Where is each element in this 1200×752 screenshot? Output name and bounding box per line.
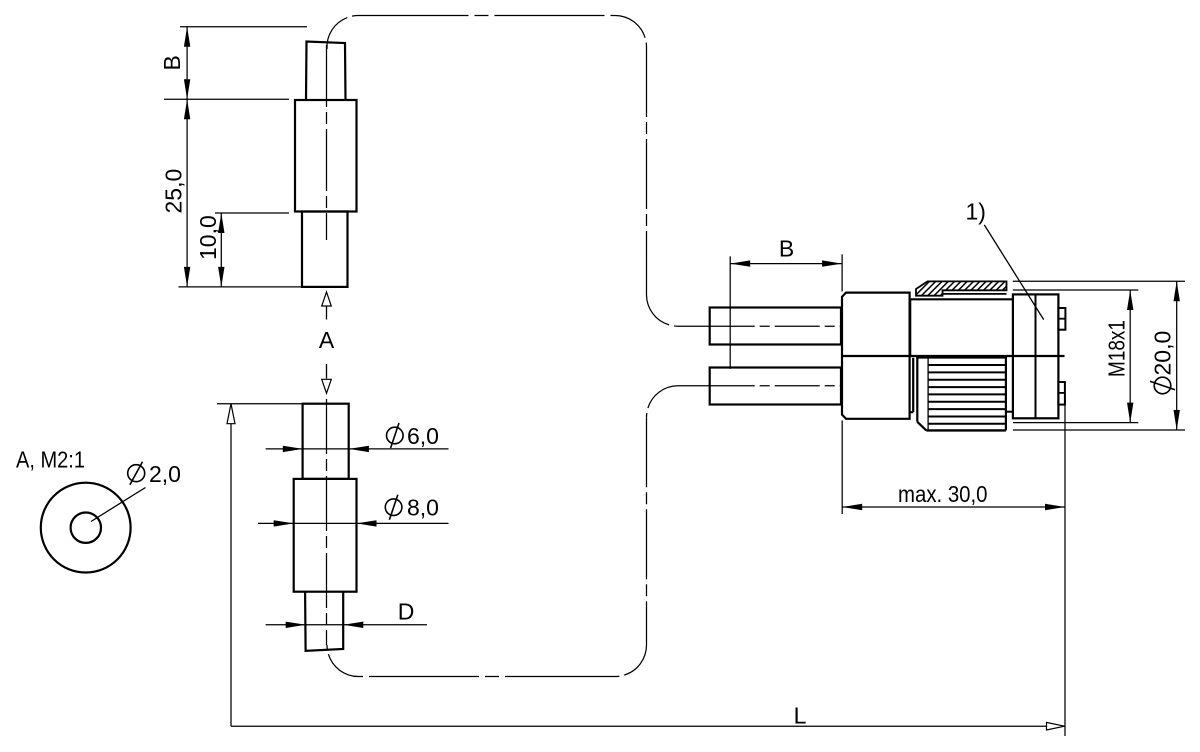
dimension line 10,0 vertical (220, 213, 222, 287)
connector body left edge (909, 299, 911, 356)
dimension line L vertical part (230, 404, 232, 727)
svg-text:8,0: 8,0 (407, 495, 439, 521)
arrow D right (343, 622, 363, 628)
terminal screw top divider (1058, 318, 1065, 320)
extension line at probe bottom (25,0 / 10,0 bottom) (179, 286, 305, 288)
arrow D left (286, 622, 306, 628)
detail inner circle dia 2,0 (71, 513, 101, 543)
arrow max30 left (842, 504, 862, 510)
cable top horizontal run (359, 15, 616, 17)
cable from upper probe: arc to top run (327, 15, 359, 49)
view arrow A (upper, open arrowhead) (322, 292, 332, 306)
svg-text:2,0: 2,0 (149, 461, 181, 487)
connector body top edge (910, 298, 1012, 300)
extension line B right (connector face) (841, 254, 843, 291)
knurl facet boundary (927, 358, 929, 431)
rear housing divider (1035, 294, 1037, 418)
cable arc into connector top entry (647, 295, 679, 326)
svg-text:L: L (794, 703, 807, 729)
extension line at probe body top (B bottom / 25,0 top) (164, 98, 289, 100)
arrow 10,0 top (218, 213, 224, 233)
svg-text:6,0: 6,0 (407, 423, 439, 449)
svg-text:A: A (319, 327, 335, 353)
lower probe tip shaft (305, 592, 343, 651)
view arrow A (lower, open arrowhead pointing down) (322, 379, 332, 393)
svg-text:20,0: 20,0 (1149, 331, 1175, 376)
svg-text:10,0: 10,0 (195, 215, 221, 260)
bottom ferrule (710, 368, 841, 405)
upper probe body (295, 100, 357, 212)
svg-text:1): 1) (966, 199, 986, 225)
terminal screw bottom divider (1058, 392, 1065, 394)
dimension line diameter 8,0 (258, 522, 449, 524)
arrow L top (open) (227, 404, 235, 424)
arrow dia8 right (357, 520, 377, 526)
cable bottom-right corner arc (615, 645, 647, 677)
svg-text:D: D (398, 599, 415, 625)
extension line max30 left (841, 421, 843, 515)
upper probe lower shaft (302, 212, 348, 287)
arrow 25,0 bottom (184, 267, 190, 287)
dimension line L horizontal part (231, 725, 1065, 727)
extension line M18 bottom (1013, 422, 1138, 424)
diameter symbol 6,0 (387, 427, 404, 444)
arrow B-conn left (730, 260, 750, 266)
extension line B left (crosses top ferrule) (729, 256, 731, 369)
terminal screw bottom (1058, 382, 1065, 405)
view arrow A tail (upper) (326, 306, 328, 320)
svg-text:B: B (159, 55, 185, 70)
diameter symbol 20,0 (rotated) (1150, 377, 1175, 394)
extension line dia20 bottom (1013, 429, 1185, 431)
detail outer circle (41, 483, 131, 573)
extension line at probe step (10,0 top) (215, 212, 289, 214)
svg-text:25,0: 25,0 (161, 169, 187, 214)
arrow B bottom (184, 79, 190, 99)
cable arc out of connector bottom entry (647, 386, 679, 418)
dimension line diameter 6,0 (266, 448, 449, 450)
svg-text:M18x1: M18x1 (1103, 320, 1129, 377)
top ferrule (710, 308, 841, 345)
lower probe upper shaft (303, 404, 349, 479)
arrow B-conn right (822, 260, 842, 266)
knurled ring left edge (916, 356, 918, 422)
cap inner edge lower (912, 358, 914, 412)
svg-text:max. 30,0: max. 30,0 (898, 481, 988, 507)
dimension line dia 20,0 (1176, 281, 1178, 430)
extension line top of lower probe (L top) (217, 403, 304, 405)
extension line max30 right / L right (1064, 394, 1066, 736)
bottom ferrule centerline (710, 385, 841, 387)
cap step lower (910, 411, 914, 413)
knurled ring top line (917, 357, 1006, 359)
arrow M18 top (1127, 290, 1133, 310)
top ferrule centerline (710, 325, 841, 327)
arrow dia20 bottom (1174, 410, 1180, 430)
lower probe body (294, 479, 357, 592)
svg-text:B: B (779, 236, 794, 262)
arrow max30 right (1045, 504, 1065, 510)
rear housing (1013, 294, 1059, 418)
dimension line max. 30,0 (842, 506, 1065, 508)
dimension line B + 25,0 vertical (186, 27, 188, 287)
cable right vertical run (lower) (646, 417, 648, 645)
knurled ring right edge (1005, 356, 1007, 430)
gland nut section outline (916, 281, 1007, 295)
view arrow A tail (lower) (326, 364, 328, 379)
arrow dia6 left (283, 446, 303, 452)
extension line dia20 top (1013, 280, 1185, 282)
arrow 10,0 bottom (218, 267, 224, 287)
arrow L right (open) (1047, 722, 1065, 730)
cable top-right corner arc (615, 16, 647, 48)
knurled ring chamfer (917, 422, 926, 431)
dimension line B (connector) (730, 263, 842, 265)
leader line 1) (984, 225, 1043, 320)
diameter symbol 8,0 (385, 499, 402, 516)
connector mid split line (842, 355, 1065, 357)
svg-text:A, M2:1: A, M2:1 (16, 447, 85, 473)
knurled ring bottom edge (926, 429, 1006, 431)
dimension line M18x1 (1129, 290, 1131, 423)
cable lead to top ferrule (678, 325, 710, 327)
body step notch lower (1006, 411, 1013, 413)
diameter symbol 2,0 (128, 465, 145, 482)
thread crest line under nut (943, 293, 1007, 295)
gland nut section hatch (908, 281, 1025, 297)
extension line M18 top (1013, 289, 1139, 291)
terminal screw top (1058, 308, 1065, 330)
upper probe centerline (326, 45, 328, 240)
arrow M18 bottom (1127, 403, 1133, 423)
cable lead from bottom ferrule (678, 385, 710, 387)
extension line top of upper probe (B top) (180, 26, 307, 28)
lower probe centerline (326, 399, 328, 645)
leader line dia 2,0 (91, 488, 146, 522)
cable right vertical run (upper) (646, 47, 648, 295)
arrow 25,0 top (184, 99, 190, 119)
cable bottom horizontal run (359, 676, 616, 678)
cable arc up into lower probe (327, 645, 359, 677)
dimension line D (266, 624, 427, 626)
connector front cap (chamfered) (842, 293, 910, 419)
arrow dia8 left (274, 520, 294, 526)
arrow dia20 top (1174, 281, 1180, 301)
arrow dia6 right (349, 446, 369, 452)
knurl ribs (928, 364, 1006, 366)
upper probe cable sleeve (top shaft) (306, 42, 346, 101)
arrow B top (184, 27, 190, 47)
